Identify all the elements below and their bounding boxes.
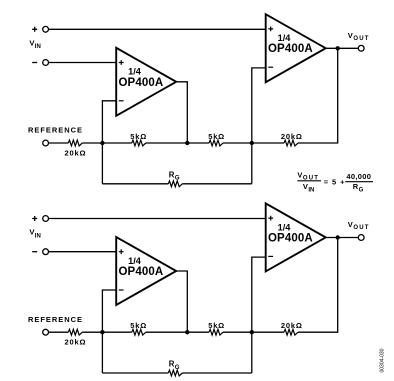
resistor R2 5k [132,140,146,146]
label RG [169,360,180,371]
terminal VOUT [358,45,364,51]
svg-text:1/4: 1/4 [278,222,292,232]
svg-text:IN: IN [308,188,314,194]
resistor R7 5k [132,329,146,335]
wire RG line left [102,183,168,185]
wire J5 to R8 [187,331,209,333]
terminal + (top input) [32,26,48,32]
resistor R4 20k [284,140,298,146]
svg-text:G: G [359,187,364,193]
wire A2 output to VOUT [326,47,359,49]
wire J6 to R9 [252,331,284,333]
svg-text:V: V [297,170,302,179]
svg-text:V: V [303,182,308,191]
terminal REFERENCE [43,140,49,146]
wire R1 to J1 [82,142,102,144]
svg-text:OP400A: OP400A [119,77,164,89]
svg-text:REFERENCE: REFERENCE [28,315,82,324]
node output [336,46,340,50]
wire A1 output to J2 [176,82,187,143]
svg-text:= 5 +: = 5 + [324,177,345,186]
wire J1 to R2 [102,142,131,144]
svg-text:OUT: OUT [353,36,368,42]
resistor RG2 [168,370,182,376]
svg-text:20kΩ: 20kΩ [65,338,86,347]
wire terminal to R6 [49,331,69,333]
svg-text:IN: IN [35,44,41,50]
svg-text:REFERENCE: REFERENCE [28,126,82,135]
svg-text:20kΩ: 20kΩ [65,148,86,157]
resistor R1 20k [68,140,82,146]
terminal + (top input, lower circuit) [32,216,48,222]
wire + input to A4 [49,218,266,220]
wire R8 to J6 [223,331,252,333]
resistor R9 20k [284,329,298,335]
node output 2 [336,235,340,239]
svg-text:40,000: 40,000 [346,172,371,181]
label VOUT [348,31,369,42]
node J6 [250,330,254,334]
wire R2 to J2 [146,142,188,144]
svg-text:V: V [348,220,353,229]
resistor RG [168,181,182,187]
svg-text:20kΩ: 20kΩ [281,132,302,141]
terminal - (lower circuit) [32,249,48,255]
resistor R8 5k [209,329,223,335]
wire J2 to R3 [187,142,209,144]
wire terminal to R1 [49,142,69,144]
terminal - (bottom input) [32,60,48,66]
label RG [169,170,180,181]
wire R6 to J4 [82,331,102,333]
svg-text:20kΩ: 20kΩ [281,321,302,330]
svg-text:OP400A: OP400A [268,43,313,55]
node J5 [185,330,189,334]
svg-text:OP400A: OP400A [268,232,313,244]
svg-text:5kΩ: 5kΩ [130,132,146,141]
formula VOUT/VIN = 5 + 40,000/RG [297,170,373,193]
svg-text:1/4: 1/4 [278,33,292,43]
terminal REFERENCE [43,329,49,335]
wire - input to A1 [49,62,117,64]
svg-text:5kΩ: 5kΩ [208,132,224,141]
wire J3 to R4 [252,142,284,144]
wire RG2 line left [102,372,168,374]
svg-text:G: G [175,364,180,371]
wire R3 to J3 [223,142,252,144]
node J4 [100,330,104,334]
op-amp A1 1/4 OP400A [116,48,176,116]
wire R9 to output node [298,238,338,333]
wire RG2 line right [182,372,252,374]
terminal VOUT 2 [358,235,364,241]
wire R4 to output node [298,48,338,143]
resistor R3 5k [209,140,223,146]
wire J3 up to A2 inverting input [252,68,266,184]
label VOUT [348,220,369,231]
label VIN [29,38,40,50]
wire RG line right [182,183,252,185]
op-amp A2 1/4 OP400A [266,14,326,82]
resistor R6 20k [68,329,82,335]
svg-text:00304-030: 00304-030 [380,348,386,372]
svg-text:5kΩ: 5kΩ [130,321,146,330]
node J2 [185,141,189,145]
wire A1 inverting input / left feedback [102,101,116,184]
wire A3 output to J5 [176,271,187,332]
node J1 [100,141,104,145]
op-amp A3 1/4 OP400A [116,237,176,305]
svg-text:1/4: 1/4 [128,256,142,266]
svg-text:OP400A: OP400A [119,266,164,278]
node J3 [250,141,254,145]
svg-text:5kΩ: 5kΩ [208,321,224,330]
wire - input to A3 [49,251,117,253]
svg-text:G: G [175,175,180,182]
svg-text:1/4: 1/4 [128,67,142,77]
label VIN [29,228,40,240]
wire J4 to R7 [102,331,131,333]
wire + input to A2 [49,28,266,30]
svg-text:IN: IN [35,233,41,239]
op-amp A4 1/4 OP400A [266,203,326,271]
svg-text:OUT: OUT [353,225,368,231]
wire A4 output to VOUT [326,237,359,239]
wire J6 up to A4 inverting input [252,257,266,373]
wire R7 to J5 [146,331,188,333]
svg-text:V: V [348,31,353,40]
wire A3 inverting input / left feedback [102,290,116,373]
